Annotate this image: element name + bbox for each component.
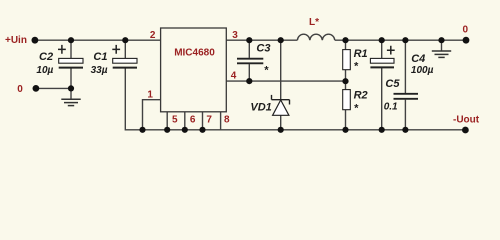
svg-text:VD1: VD1: [250, 102, 271, 114]
svg-text:C5: C5: [385, 78, 400, 90]
svg-text:MIC4680: MIC4680: [174, 47, 215, 58]
svg-text:33µ: 33µ: [91, 65, 108, 76]
svg-text:*: *: [354, 60, 359, 72]
svg-text:L*: L*: [309, 17, 319, 28]
svg-text:0: 0: [463, 25, 469, 36]
svg-text:6: 6: [190, 115, 196, 126]
svg-text:8: 8: [224, 115, 230, 126]
svg-text:1: 1: [147, 90, 153, 101]
svg-text:100µ: 100µ: [411, 65, 434, 76]
svg-text:C3: C3: [256, 43, 270, 55]
svg-text:R2: R2: [354, 89, 368, 101]
svg-text:C2: C2: [39, 51, 53, 63]
svg-text:C4: C4: [411, 53, 425, 65]
svg-text:4: 4: [231, 71, 237, 82]
svg-text:5: 5: [172, 115, 178, 126]
svg-text:3: 3: [232, 30, 238, 41]
svg-text:0.1: 0.1: [384, 101, 398, 112]
svg-text:7: 7: [206, 115, 212, 126]
svg-text:2: 2: [150, 30, 156, 41]
svg-text:10µ: 10µ: [36, 65, 53, 76]
svg-text:-Uout: -Uout: [453, 115, 480, 126]
svg-text:*: *: [264, 64, 269, 76]
svg-text:0: 0: [17, 84, 23, 95]
svg-text:*: *: [354, 102, 359, 114]
svg-text:C1: C1: [93, 51, 107, 63]
svg-text:+Uin: +Uin: [5, 35, 27, 46]
svg-text:R1: R1: [354, 48, 368, 60]
